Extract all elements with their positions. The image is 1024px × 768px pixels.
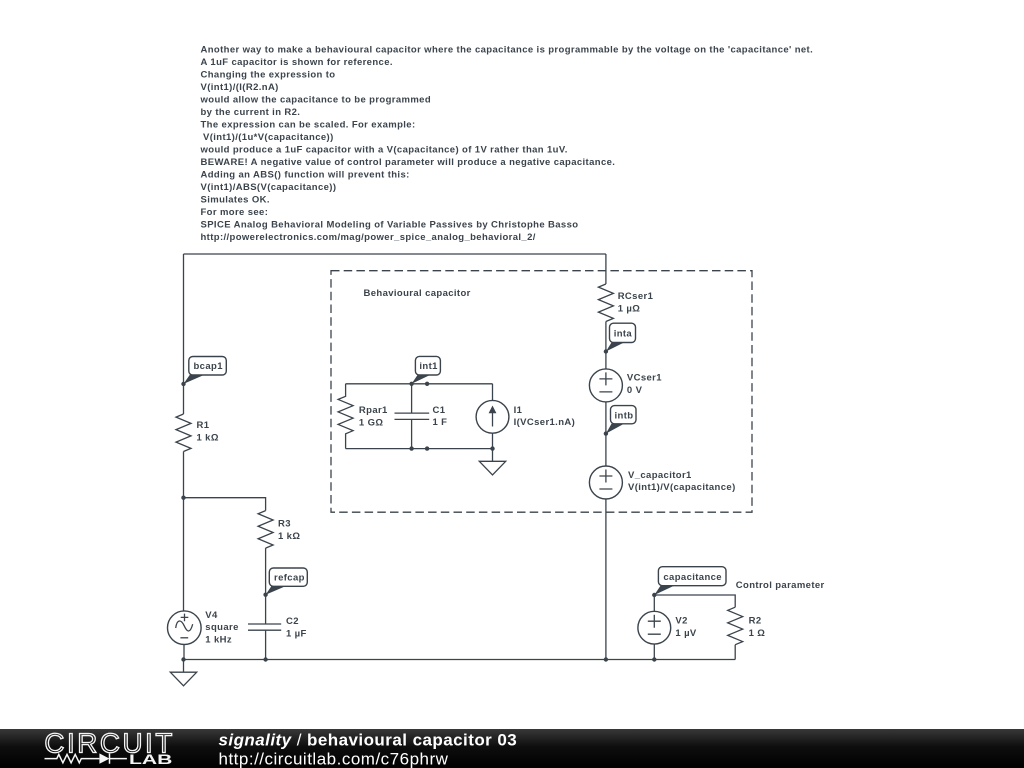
svg-text:square: square	[205, 622, 238, 633]
svg-text:1 F: 1 F	[433, 417, 448, 428]
node junction A	[181, 496, 185, 500]
wire subcircuit bottom rail	[346, 448, 493, 450]
svg-text:Simulates OK.: Simulates OK.	[201, 195, 270, 206]
wire RCser1 to VCser1	[605, 322, 607, 370]
svg-text:capacitance: capacitance	[663, 572, 722, 583]
wire VCser1 to V_capacitor1	[605, 402, 607, 466]
capacitor C2	[248, 616, 307, 639]
svg-text:inta: inta	[614, 328, 633, 339]
node bottom rail dot C1	[409, 446, 413, 450]
svg-text:would allow the capacitance to: would allow the capacitance to be progra…	[200, 95, 432, 106]
node rail junction right branch	[604, 657, 608, 661]
node rail junction C2	[263, 657, 267, 661]
behavioural capacitor dashed box	[331, 271, 752, 513]
svg-text:C2: C2	[286, 616, 299, 627]
node intb flag	[604, 406, 636, 436]
wire right branch upper	[605, 254, 607, 284]
resistor R3	[258, 511, 300, 548]
node rail junction V4	[181, 657, 185, 661]
svg-text:1 kHz: 1 kHz	[205, 635, 232, 646]
logo resistor-diode line	[45, 753, 127, 763]
svg-text:Behavioural capacitor: Behavioural capacitor	[364, 288, 471, 299]
svg-text:int1: int1	[419, 361, 438, 372]
svg-text:V2: V2	[675, 615, 687, 626]
wire left branch upper	[183, 254, 185, 414]
svg-text:http://powerelectronics.com/ma: http://powerelectronics.com/mag/power_sp…	[201, 232, 536, 243]
svg-text:A 1uF capacitor is shown for r: A 1uF capacitor is shown for reference.	[201, 57, 393, 68]
voltage source V4	[168, 610, 239, 646]
svg-text:Another way to make a behaviou: Another way to make a behavioural capaci…	[201, 45, 814, 56]
node int1 flag	[409, 356, 440, 386]
resistor R2	[728, 607, 766, 645]
node bottom rail dot	[425, 446, 429, 450]
svg-text:1 kΩ: 1 kΩ	[278, 531, 300, 542]
wire capacitance node to V2	[653, 595, 655, 611]
wire left branch middle	[183, 452, 185, 612]
svg-text:1 µΩ: 1 µΩ	[618, 304, 641, 315]
node inta flag	[604, 323, 636, 353]
current source I1	[476, 384, 575, 449]
svg-text:1 kΩ: 1 kΩ	[197, 433, 219, 444]
svg-text:Changing the expression to: Changing the expression to	[201, 70, 336, 81]
node I1 ground junction	[490, 446, 494, 450]
svg-text:LAB: LAB	[129, 752, 172, 767]
wire capacitance node to R2	[654, 595, 735, 607]
svg-text:R3: R3	[278, 519, 291, 530]
svg-text:RCser1: RCser1	[618, 291, 654, 302]
node refcap flag	[263, 568, 307, 597]
footer bar	[0, 729, 1024, 768]
svg-text:would produce a 1uF capacitor: would produce a 1uF capacitor with a V(c…	[200, 145, 568, 156]
ground under I1	[479, 449, 505, 475]
svg-text:SPICE Analog Behavioral Modeli: SPICE Analog Behavioral Modeling of Vari…	[201, 220, 579, 231]
svg-text:1 GΩ: 1 GΩ	[359, 417, 383, 428]
node capacitance flag	[652, 567, 726, 598]
svg-text:by the current in R2.: by the current in R2.	[201, 107, 301, 118]
svg-text:V4: V4	[205, 610, 218, 621]
svg-text:V(int1)/ABS(V(capacitance)): V(int1)/ABS(V(capacitance))	[201, 182, 337, 193]
resistor Rpar1	[338, 384, 388, 449]
node bcap1 flag	[181, 357, 226, 387]
svg-text:V_capacitor1: V_capacitor1	[628, 470, 692, 481]
capacitor C1	[395, 384, 448, 449]
voltage source V2	[638, 611, 697, 644]
svg-text:I(VCser1.nA): I(VCser1.nA)	[514, 417, 576, 428]
svg-text:refcap: refcap	[274, 573, 305, 584]
wire V_capacitor1 to rail	[605, 499, 607, 660]
svg-text:V(int1)/V(capacitance): V(int1)/V(capacitance)	[628, 482, 736, 493]
wire bottom rail	[184, 659, 736, 661]
node top rail dot	[425, 382, 429, 386]
svg-text:The expression can be scaled.: The expression can be scaled. For exampl…	[201, 120, 416, 131]
svg-text:Adding an ABS() function will: Adding an ABS() function will prevent th…	[201, 170, 410, 181]
svg-text:0 V: 0 V	[627, 385, 643, 396]
svg-text:1 µV: 1 µV	[675, 628, 697, 639]
svg-text:R2: R2	[749, 615, 762, 626]
voltage source VCser1	[589, 369, 662, 402]
svg-text:V(int1)/(I(R2.nA): V(int1)/(I(R2.nA)	[201, 82, 279, 93]
svg-text:VCser1: VCser1	[627, 373, 662, 384]
wire V4 to rail	[183, 644, 185, 659]
resistor R1	[176, 414, 219, 452]
svg-text:intb: intb	[615, 410, 634, 421]
wire V2 to rail	[653, 644, 655, 659]
wire top rail	[184, 253, 606, 255]
svg-text:For more see:: For more see:	[201, 207, 269, 218]
svg-text:BEWARE! A negative value of co: BEWARE! A negative value of control para…	[201, 157, 616, 168]
svg-text:Rpar1: Rpar1	[359, 405, 388, 416]
svg-text:V(int1)/(1u*V(capacitance)): V(int1)/(1u*V(capacitance))	[203, 132, 334, 143]
ground under V4	[170, 660, 196, 686]
svg-text:R1: R1	[197, 420, 210, 431]
svg-text:I1: I1	[514, 405, 523, 416]
svg-text:bcap1: bcap1	[194, 361, 224, 372]
svg-text:signality / behavioural capaci: signality / behavioural capacitor 03	[219, 731, 518, 750]
wire to R3 branch	[184, 498, 266, 511]
wire C2 to rail	[265, 630, 267, 659]
wire subcircuit top rail	[346, 383, 493, 385]
svg-text:Control parameter: Control parameter	[736, 580, 825, 591]
resistor RCser1	[598, 284, 653, 322]
svg-text:1 µF: 1 µF	[286, 628, 307, 639]
svg-text:C1: C1	[433, 405, 446, 416]
svg-text:1 Ω: 1 Ω	[749, 628, 766, 639]
voltage source V_capacitor1	[589, 466, 735, 499]
svg-text:http://circuitlab.com/c76phrw: http://circuitlab.com/c76phrw	[219, 750, 449, 768]
node rail junction V2	[652, 657, 656, 661]
wire R3 to refcap	[265, 548, 267, 624]
wire R2 to rail	[734, 645, 736, 660]
annotation text block	[200, 45, 814, 244]
